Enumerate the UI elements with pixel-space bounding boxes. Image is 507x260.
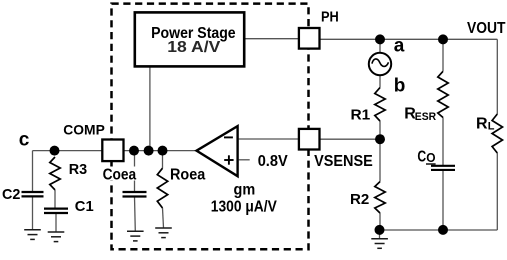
wire: Coea top stub bbox=[134, 151, 136, 192]
wire: RESR top stub bbox=[442, 39, 444, 71]
svg-text:C: C bbox=[417, 148, 426, 165]
junction dot node c bbox=[50, 146, 60, 156]
port COMP bbox=[102, 140, 123, 162]
power stage block U2 bbox=[135, 12, 244, 66]
svg-text:R1: R1 bbox=[351, 106, 371, 123]
resistor R3 bbox=[50, 157, 60, 190]
svg-text:R2: R2 bbox=[350, 191, 369, 208]
capacitor C1 bbox=[44, 208, 68, 210]
ground below C2 bbox=[24, 229, 41, 231]
wire: bottom ground rail bbox=[380, 229, 498, 231]
wire: C2 to ground bbox=[32, 196, 34, 229]
junction dot COMP/Coea bbox=[129, 146, 139, 156]
wire: top rail PH to VOUT corner bbox=[320, 38, 498, 40]
wire: C1 to ground bbox=[55, 213, 57, 232]
svg-text:COMP: COMP bbox=[63, 122, 105, 138]
resistor R2 bbox=[375, 182, 385, 213]
wire: Roea to ground bbox=[163, 208, 164, 228]
wire: op-amp inverting input to VSENSE bbox=[238, 138, 299, 140]
svg-text:a: a bbox=[394, 35, 405, 56]
label Coea bbox=[102, 167, 138, 181]
port PH bbox=[299, 28, 320, 49]
wire: Coea to ground bbox=[134, 197, 137, 232]
wire: R1 to VSENSE node bbox=[379, 121, 381, 139]
svg-text:R: R bbox=[476, 115, 488, 132]
dashed converter boundary box bbox=[112, 4, 309, 250]
ground below Coea bbox=[127, 230, 144, 232]
svg-text:18 A/V: 18 A/V bbox=[167, 39, 220, 56]
wire: power stage output to PH bbox=[244, 38, 299, 40]
svg-text:R3: R3 bbox=[69, 161, 87, 178]
wire: source top stub bbox=[379, 39, 381, 53]
svg-text:VOUT: VOUT bbox=[467, 20, 506, 37]
svg-text:C1: C1 bbox=[75, 198, 94, 215]
svg-text:0.8V: 0.8V bbox=[258, 153, 288, 170]
wire: R2 to bottom rail bbox=[379, 213, 381, 230]
svg-text:L: L bbox=[488, 121, 495, 133]
ground below C1 bbox=[48, 231, 65, 233]
port VSENSE bbox=[299, 129, 320, 150]
junction dot PH/source bbox=[375, 34, 385, 44]
wire: VOUT right vertical upper (to RL) bbox=[496, 39, 498, 114]
wire: op-amp non-inverting 0.8V stub bbox=[239, 159, 250, 161]
ground below R2 bbox=[371, 238, 388, 240]
junction dot Roea bbox=[158, 146, 168, 156]
wire: RL bottom to bottom rail bbox=[496, 153, 498, 230]
resistor Roea bbox=[157, 168, 167, 208]
svg-text:Coea: Coea bbox=[103, 166, 137, 183]
wire: R2 ground stub bbox=[379, 230, 381, 239]
svg-text:gm: gm bbox=[234, 182, 256, 199]
junction dot VSENSE divider bbox=[375, 134, 385, 144]
capacitor C2 bbox=[22, 191, 44, 193]
wire: VSENSE to R1/R2 divider bbox=[320, 138, 381, 140]
resistor RL bbox=[492, 114, 502, 153]
junction dot VOUT/RESR bbox=[438, 34, 448, 44]
junction dot R2 bottom bbox=[375, 225, 385, 235]
svg-text:C2: C2 bbox=[2, 186, 20, 203]
svg-text:ESR: ESR bbox=[415, 111, 436, 123]
wire: node c down to C2 bbox=[32, 151, 34, 192]
wire: Roea top stub bbox=[162, 151, 164, 169]
junction dot power stage line bbox=[144, 146, 154, 156]
wire: power stage to comp rail vertical bbox=[149, 66, 151, 150]
svg-text:1300 μA/V: 1300 μA/V bbox=[211, 199, 277, 216]
wire: CO to bottom rail bbox=[442, 170, 444, 230]
resistor R1 bbox=[375, 88, 385, 121]
wire: COMP to op-amp output bbox=[124, 150, 197, 152]
capacitor Coea bbox=[123, 191, 147, 193]
op-amp gm error amplifier bbox=[197, 126, 238, 176]
svg-text:VSENSE: VSENSE bbox=[314, 153, 373, 170]
svg-text:Roea: Roea bbox=[170, 166, 205, 183]
svg-text:PH: PH bbox=[321, 9, 339, 26]
wire: node c rail to COMP bbox=[33, 150, 103, 152]
wire: source bottom to R1 bbox=[379, 75, 381, 88]
svg-text:O: O bbox=[426, 150, 435, 165]
ground below Roea bbox=[155, 227, 172, 229]
ac source a-b (injection source) bbox=[369, 53, 391, 75]
resistor RESR bbox=[438, 71, 448, 117]
capacitor CO bbox=[431, 165, 455, 167]
svg-text:c: c bbox=[19, 129, 30, 150]
svg-text:b: b bbox=[394, 75, 406, 96]
wire: RESR to CO bbox=[442, 117, 444, 165]
wire: VSENSE node to R2 bbox=[379, 139, 381, 182]
wire: R3 to C1 bbox=[54, 190, 56, 209]
junction dot CO bottom bbox=[438, 225, 448, 235]
